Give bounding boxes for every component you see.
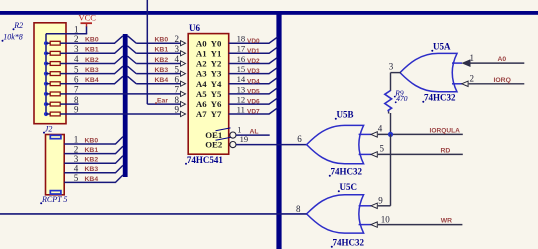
svg-text:VD4: VD4 [247, 78, 260, 85]
svg-text:Y3: Y3 [211, 69, 222, 79]
svg-text:4: 4 [74, 54, 79, 64]
svg-text:VCC: VCC [79, 13, 97, 23]
wire R2 pin 9 across to U6 pin 9 [66, 113, 186, 115]
IC U6 74HC541 body [188, 34, 229, 155]
svg-text:U6: U6 [189, 23, 200, 33]
R2 internal resistor row pin 3 [44, 51, 48, 55]
svg-text:IORQ: IORQ [494, 77, 511, 84]
svg-text:A6: A6 [196, 99, 207, 109]
svg-text:A0: A0 [196, 38, 207, 48]
svg-text:16: 16 [237, 54, 246, 64]
connector J2 body [46, 135, 65, 195]
svg-text:13: 13 [237, 84, 246, 94]
svg-text:2: 2 [470, 74, 475, 84]
wire R2 pin 7 across to U6 pin 7 [66, 93, 186, 95]
svg-text:11: 11 [237, 104, 245, 114]
svg-text:2: 2 [74, 34, 79, 44]
wire bus to U6 pin 5 net KB3 [128, 66, 137, 73]
svg-text:10: 10 [381, 214, 391, 224]
U5A pin 2 input, net IORQ [452, 83, 462, 85]
junction node R9/U5B.4/IORQULA [388, 132, 393, 137]
svg-text:VD5: VD5 [247, 89, 260, 96]
svg-text:470: 470 [396, 94, 408, 103]
svg-text:A1: A1 [196, 48, 207, 58]
svg-text:7: 7 [175, 85, 180, 95]
svg-text:VD6: VD6 [247, 99, 260, 106]
svg-text:4: 4 [74, 164, 79, 174]
svg-text:VD0: VD0 [247, 38, 260, 45]
svg-text:KB4: KB4 [85, 77, 99, 84]
U5B pin 5 input, net RD [359, 153, 372, 155]
wire R2 pin 5 net KB3 to bus [66, 73, 115, 75]
U5C pin 8 output wire to left edge [0, 213, 307, 215]
svg-text:8: 8 [74, 95, 79, 105]
svg-text:A0: A0 [498, 56, 507, 63]
svg-text:VD7: VD7 [247, 109, 260, 116]
svg-text:U5C: U5C [340, 182, 358, 192]
wire J2 pin 3 net KB2 to bus [64, 162, 116, 164]
svg-text:5: 5 [74, 64, 79, 74]
svg-text:KB4: KB4 [85, 176, 99, 183]
svg-text:1: 1 [74, 135, 79, 145]
svg-text:A3: A3 [196, 69, 207, 79]
svg-text:74HC32: 74HC32 [331, 167, 363, 177]
wire junction down to U5C pin 9 [390, 134, 392, 205]
svg-text:74HC32: 74HC32 [333, 238, 365, 248]
svg-text:Y7: Y7 [211, 109, 222, 119]
svg-text:AL: AL [250, 128, 259, 135]
svg-text:KB0: KB0 [85, 37, 99, 44]
svg-text:6: 6 [175, 74, 180, 84]
R2 internal resistor row pin 2 [44, 41, 48, 45]
svg-text:3: 3 [74, 154, 79, 164]
svg-text:4: 4 [175, 54, 180, 64]
U5A pin 1 input, net A0 [452, 62, 462, 64]
svg-text:2: 2 [74, 144, 79, 154]
svg-text:U5A: U5A [433, 42, 451, 52]
svg-text:A4: A4 [196, 79, 207, 89]
bus: right vertical VD bus [276, 11, 281, 249]
svg-text:KB3: KB3 [85, 67, 99, 74]
svg-text:A5: A5 [196, 89, 207, 99]
svg-text:KB2: KB2 [85, 57, 99, 64]
svg-text:9: 9 [175, 105, 180, 115]
svg-text:Y0: Y0 [211, 38, 222, 48]
svg-text:17: 17 [237, 44, 246, 54]
R2 internal resistor row pin 7 [44, 92, 48, 96]
svg-text:Y4: Y4 [211, 79, 222, 89]
svg-text:7: 7 [74, 85, 79, 95]
R2 internal resistor row pin 6 [44, 82, 48, 86]
bus: top horizontal VD bus [0, 11, 538, 15]
svg-text:KB2: KB2 [155, 57, 169, 64]
R2 internal resistor row pin 9 [44, 112, 48, 116]
wire bus to U6 pin 3 net KB1 [128, 46, 137, 53]
svg-text:Y2: Y2 [211, 59, 222, 69]
wire J2 pin 1 net KB0 to bus [64, 143, 116, 145]
svg-text:3: 3 [74, 44, 79, 54]
R2 internal resistor row pin 5 [44, 72, 48, 76]
J2 bottom contact mark [50, 191, 61, 194]
resistor R9 zigzag [385, 91, 392, 112]
svg-text:74HC541: 74HC541 [187, 155, 224, 165]
R2 internal resistor row pin 8 [44, 102, 48, 106]
svg-text:6: 6 [297, 134, 302, 144]
svg-text:KB0: KB0 [155, 37, 169, 44]
svg-text:A7: A7 [196, 109, 207, 119]
svg-text:VD1: VD1 [247, 48, 260, 55]
svg-text:15: 15 [237, 64, 246, 74]
svg-text:1: 1 [470, 53, 475, 63]
svg-text:J2: J2 [45, 124, 53, 133]
U5B pin 4 input, net IORQULA [359, 133, 372, 135]
wire J2 pin 5 net KB4 to bus [64, 181, 116, 183]
resistor network R2 body [34, 23, 66, 124]
svg-text:KB2: KB2 [85, 157, 99, 164]
svg-text:OE1: OE1 [205, 130, 222, 140]
wire bus to U6 pin 4 net KB2 [128, 56, 137, 63]
R2 internal common bar [45, 34, 47, 114]
svg-text:VD3: VD3 [247, 68, 260, 75]
U5C pin 10 input, net WR [359, 224, 372, 226]
svg-text:RCPT 5: RCPT 5 [41, 195, 67, 204]
svg-text:3: 3 [175, 44, 180, 54]
R2 internal resistor row pin 4 [44, 61, 48, 65]
wire R9 bottom to U5B pin 4 junction [388, 112, 390, 114]
op-amp U5C OR-gate body [307, 195, 364, 233]
svg-text:3: 3 [389, 61, 394, 71]
svg-text:OE2: OE2 [205, 139, 223, 149]
svg-text:12: 12 [237, 95, 246, 105]
svg-text:18: 18 [237, 34, 246, 44]
svg-text:9: 9 [74, 105, 79, 115]
svg-text:Y6: Y6 [211, 99, 222, 109]
svg-text:R2: R2 [13, 21, 23, 30]
svg-text:KB0: KB0 [85, 137, 99, 144]
op-amp U5B OR-gate body [307, 125, 364, 163]
wire J2 pin 4 net KB3 to bus [64, 172, 116, 174]
wire net Ear from top edge to U6 pin 8 [146, 0, 148, 104]
svg-text:IORQULA: IORQULA [430, 127, 461, 134]
svg-text:RD: RD [441, 147, 451, 154]
wire bus to U6 pin 2 net KB0 [128, 36, 137, 43]
svg-text:1: 1 [74, 24, 79, 34]
U5A pin 3 output wire down to R9 [391, 72, 401, 74]
svg-text:9: 9 [378, 196, 383, 206]
svg-text:6: 6 [74, 74, 79, 84]
svg-text:10k*8: 10k*8 [3, 32, 23, 41]
svg-text:74HC32: 74HC32 [424, 93, 456, 103]
wire R2 pin 4 net KB2 to bus [66, 63, 115, 65]
svg-text:Y1: Y1 [211, 48, 222, 58]
svg-text:8: 8 [175, 95, 180, 105]
wire bus to U6 pin 6 net KB4 [128, 76, 137, 83]
svg-text:Ear: Ear [157, 97, 168, 104]
svg-text:U5B: U5B [337, 110, 354, 120]
svg-text:5: 5 [175, 64, 180, 74]
wire U6 pin 19 to U5B output pin 6 [236, 144, 307, 146]
svg-text:KB1: KB1 [85, 147, 99, 154]
svg-text:2: 2 [175, 34, 180, 44]
R2 pin 1 wire to VCC [46, 33, 87, 35]
svg-text:VD2: VD2 [247, 58, 260, 65]
wire J2 pin 2 net KB1 to bus [64, 153, 116, 155]
wire R2 pin 8 stub [66, 103, 79, 105]
svg-text:5: 5 [380, 144, 385, 154]
svg-text:14: 14 [237, 74, 246, 84]
op-amp U5A OR-gate body [400, 53, 457, 91]
bus: left vertical KB bus [123, 34, 128, 177]
svg-text:WR: WR [441, 218, 452, 225]
svg-text:5: 5 [74, 173, 79, 183]
wire R2 pin 3 net KB1 to bus [66, 52, 115, 54]
svg-text:KB1: KB1 [85, 47, 99, 54]
svg-text:KB4: KB4 [155, 77, 169, 84]
svg-text:KB1: KB1 [155, 47, 169, 54]
U5C pin 9 input [359, 205, 372, 207]
wire net AL from U6 pin 1 [236, 134, 270, 136]
svg-text:4: 4 [378, 124, 383, 134]
wire R2 pin 2 net KB0 to bus [66, 42, 115, 44]
svg-text:8: 8 [296, 204, 301, 214]
power VCC symbol [81, 22, 93, 24]
svg-text:KB3: KB3 [85, 166, 99, 173]
J2 top contact mark [50, 135, 61, 138]
svg-text:A2: A2 [196, 59, 207, 69]
svg-text:KB3: KB3 [155, 67, 169, 74]
wire R2 pin 6 net KB4 to bus [66, 83, 115, 85]
svg-text:Y5: Y5 [211, 89, 222, 99]
